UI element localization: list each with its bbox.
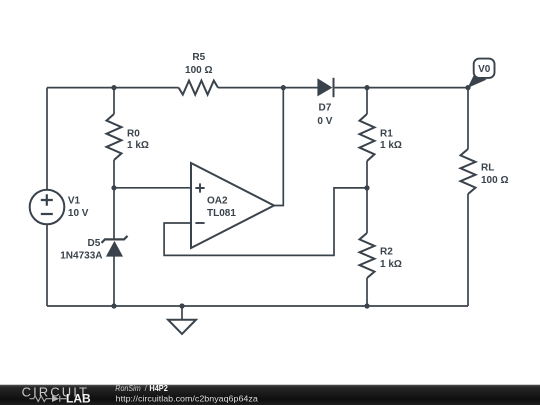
wire left rail upper (to V1) xyxy=(46,88,48,190)
op-amp minus input sign xyxy=(195,222,204,224)
resistor R2 xyxy=(360,233,375,278)
zener diode D5 xyxy=(102,236,128,257)
footer bar xyxy=(0,384,540,385)
svg-text:R2: R2 xyxy=(380,247,393,258)
svg-text:RL: RL xyxy=(481,163,494,174)
svg-text:R0: R0 xyxy=(127,128,140,139)
wire R2 top lead xyxy=(366,188,368,233)
svg-text:H4P2: H4P2 xyxy=(149,383,168,393)
wire feedback path (op-amp - input to R1/R2 node) xyxy=(164,188,367,256)
svg-text:10 V: 10 V xyxy=(68,208,89,219)
svg-text:V0: V0 xyxy=(478,64,491,75)
svg-text:100 Ω: 100 Ω xyxy=(185,65,212,76)
svg-text:1N4733A: 1N4733A xyxy=(60,250,102,261)
resistor R0 xyxy=(107,114,122,160)
svg-text:100 Ω: 100 Ω xyxy=(481,175,508,186)
op-amp plus input sign xyxy=(195,183,204,192)
svg-text:R1: R1 xyxy=(380,128,393,139)
wire top rail left segment xyxy=(47,87,179,89)
resistor R1 xyxy=(360,114,375,161)
svg-text:TL081: TL081 xyxy=(207,208,236,219)
svg-text:http://circuitlab.com/c2bnyaq6: http://circuitlab.com/c2bnyaq6p64za xyxy=(116,394,259,404)
junction dot op-amp output at top rail xyxy=(281,85,286,90)
junction dot ground xyxy=(179,303,184,308)
wire R1 bottom lead xyxy=(366,161,368,188)
svg-text:R5: R5 xyxy=(192,52,205,63)
wire bottom rail xyxy=(47,305,468,307)
resistor R5 xyxy=(179,81,218,95)
wire RL bottom lead xyxy=(467,194,469,306)
op-amp OA2 triangle xyxy=(191,163,274,248)
junction dot R2 bottom xyxy=(364,303,369,308)
junction dot top R0 xyxy=(111,85,116,90)
wire RL top lead xyxy=(467,88,469,149)
wire op-amp output to top rail xyxy=(274,88,283,206)
svg-text:V1: V1 xyxy=(68,195,81,206)
svg-text:1 kΩ: 1 kΩ xyxy=(127,140,149,151)
wire R1 top lead xyxy=(366,88,368,114)
svg-text:D5: D5 xyxy=(88,238,101,249)
wire top rail right segment (D7 to V0) xyxy=(335,87,468,89)
ground symbol triangle xyxy=(168,320,196,334)
svg-text:1 kΩ: 1 kΩ xyxy=(380,140,402,151)
wire top rail middle segment (R5 to D7) xyxy=(218,87,318,89)
svg-text:RonSim: RonSim xyxy=(115,383,140,393)
svg-text:1 kΩ: 1 kΩ xyxy=(380,259,402,270)
svg-text:OA2: OA2 xyxy=(207,196,228,207)
svg-text:0 V: 0 V xyxy=(317,116,332,127)
junction dot R1/R2 feedback node xyxy=(364,185,369,190)
V1 plus sign xyxy=(41,194,53,206)
resistor RL xyxy=(461,149,476,194)
junction dot V0 node xyxy=(465,85,470,90)
wire R0 top lead xyxy=(113,88,115,114)
node V0 flag xyxy=(468,59,495,88)
wire D5 bottom lead xyxy=(113,256,115,306)
wire R2 bottom lead xyxy=(366,278,368,306)
footer logo squiggle (resistor + diode) xyxy=(30,396,67,402)
junction dot noninverting node xyxy=(111,185,116,190)
junction dot top R1 xyxy=(364,85,369,90)
voltage source V1 circle xyxy=(30,190,65,225)
wire R0 bottom lead xyxy=(113,160,115,188)
wire D5 top lead xyxy=(113,188,115,240)
wire ground stub xyxy=(181,306,183,320)
wire left rail lower (V1 to bottom) xyxy=(46,224,48,306)
diode D7 xyxy=(317,78,333,97)
V1 minus sign xyxy=(41,213,53,215)
svg-text:LAB: LAB xyxy=(66,392,91,405)
junction dot D5 bottom xyxy=(111,303,116,308)
wire noninverting input (node A to op-amp +) xyxy=(114,187,191,189)
svg-text:D7: D7 xyxy=(319,103,332,114)
